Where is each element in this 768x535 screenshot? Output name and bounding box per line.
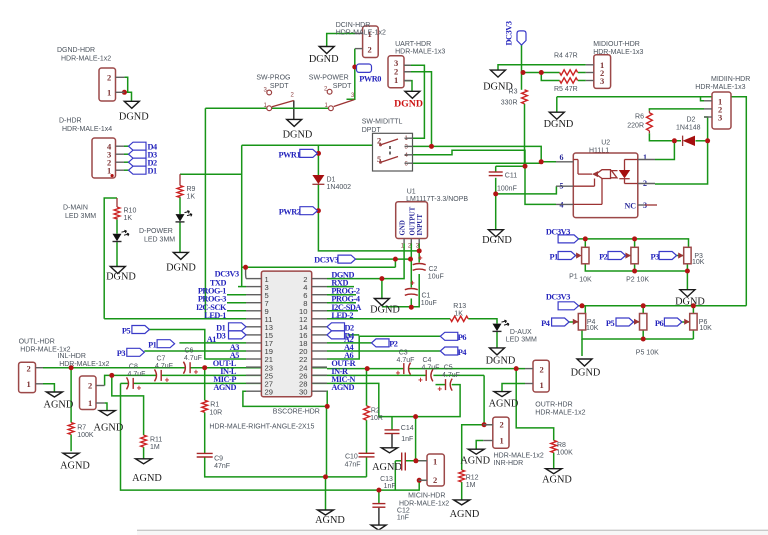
svg-text:+: + bbox=[410, 279, 415, 288]
svg-text:1N4148: 1N4148 bbox=[676, 125, 701, 132]
svg-text:P6: P6 bbox=[655, 319, 664, 328]
ground DGND right of OUTR bbox=[577, 359, 592, 366]
capacitor C13 1nF bbox=[401, 453, 403, 471]
svg-text:1K: 1K bbox=[124, 215, 133, 222]
net flags D1 D3 left bbox=[229, 323, 247, 331]
svg-text:AGND: AGND bbox=[44, 400, 74, 411]
capacitor C7 4.7uF bbox=[155, 369, 157, 381]
svg-text:47nF: 47nF bbox=[345, 462, 361, 469]
wire PROG-1 stub bbox=[227, 294, 246, 296]
ground AGND under R7 bbox=[63, 453, 79, 458]
wire PROG vertical x=205 down to LED-1 row bbox=[204, 108, 206, 319]
junction dots bbox=[122, 90, 127, 95]
ground DGND under D-MAIN bbox=[110, 267, 125, 274]
potentiometer P6 10K bbox=[690, 314, 697, 331]
svg-text:INL-HDR: INL-HDR bbox=[58, 353, 86, 360]
svg-text:HDR-MALE-1x3: HDR-MALE-1x3 bbox=[593, 49, 643, 56]
wire MICIN pin1 row bbox=[405, 460, 427, 462]
svg-text:HDR-MALE-1x2: HDR-MALE-1x2 bbox=[399, 501, 449, 508]
svg-text:DCIN-HDR: DCIN-HDR bbox=[336, 22, 371, 29]
svg-text:220R: 220R bbox=[627, 123, 644, 130]
svg-text:P4: P4 bbox=[541, 319, 550, 328]
svg-text:4.7uF: 4.7uF bbox=[128, 371, 146, 378]
wire R7 from OUT-L node bbox=[70, 368, 72, 423]
wire pot row2 bottom rail bbox=[582, 330, 693, 339]
led D-MAIN bbox=[113, 234, 122, 242]
svg-text:P1: P1 bbox=[148, 341, 157, 350]
svg-text:6: 6 bbox=[560, 153, 564, 162]
net flags D4 D3 D2 D1 bbox=[129, 142, 147, 150]
wire C14 stem bottom bbox=[391, 434, 393, 448]
potentiometer P3 10K bbox=[684, 247, 691, 263]
svg-text:1: 1 bbox=[107, 88, 111, 98]
connector INL-HDR bbox=[80, 376, 97, 410]
svg-text:HDR-MALE-RIGHT-ANGLE-2X15: HDR-MALE-RIGHT-ANGLE-2X15 bbox=[209, 424, 314, 431]
svg-text:2: 2 bbox=[27, 364, 31, 374]
svg-text:PWR0: PWR0 bbox=[359, 75, 381, 84]
svg-text:SW-MIDITTL: SW-MIDITTL bbox=[362, 119, 403, 126]
svg-text:1: 1 bbox=[433, 457, 437, 467]
wire INR-HDR pin1 to AGND bbox=[476, 441, 483, 450]
capacitor C5 4.7uF bbox=[445, 379, 447, 390]
wire RXD stub bbox=[327, 286, 354, 288]
ground DGND under C11 bbox=[488, 230, 503, 237]
capacitor C2 10uF bbox=[413, 264, 426, 265]
svg-text:HDR-MALE-1x3: HDR-MALE-1x3 bbox=[695, 84, 745, 91]
wire MIDIIN pin1 to rail bbox=[701, 97, 705, 101]
resistor R7 100K bbox=[68, 423, 74, 435]
wire IN-L node down to R11 bbox=[112, 375, 144, 435]
svg-text:AGND: AGND bbox=[331, 383, 354, 392]
svg-text:1: 1 bbox=[394, 75, 398, 85]
svg-text:DGND: DGND bbox=[106, 272, 136, 283]
svg-text:C2: C2 bbox=[429, 266, 438, 273]
ground DGND under DGND-HDR bbox=[124, 101, 139, 108]
svg-text:DGND: DGND bbox=[309, 54, 339, 65]
svg-text:R8: R8 bbox=[557, 442, 566, 449]
capacitor C12 1nF bbox=[372, 503, 385, 505]
svg-text:D-AUX: D-AUX bbox=[510, 329, 532, 336]
svg-text:1K: 1K bbox=[454, 311, 463, 318]
wire R7 to AGND bbox=[70, 435, 72, 452]
wire TXD stub bbox=[238, 286, 246, 288]
svg-text:10uF: 10uF bbox=[421, 300, 437, 307]
wire INR node to R12 bbox=[462, 425, 484, 470]
svg-text:100K: 100K bbox=[556, 450, 573, 457]
wire LED-2 row to R13 bbox=[327, 318, 450, 320]
wire R2 C10 vertical bbox=[366, 369, 368, 406]
ground AGND under INL pin1 bbox=[99, 411, 115, 416]
resistor R4 47R bbox=[560, 70, 578, 75]
wire OUT-L row bbox=[43, 367, 185, 369]
svg-text:MIDIOUT-HDR: MIDIOUT-HDR bbox=[593, 41, 640, 48]
svg-text:DC3V3: DC3V3 bbox=[314, 256, 338, 265]
svg-text:DC3V3: DC3V3 bbox=[546, 228, 570, 237]
svg-text:DGND: DGND bbox=[394, 99, 423, 110]
connector OUTR-HDR bbox=[533, 360, 549, 392]
wire R5 to MIDIOUT pin3 bbox=[578, 80, 586, 82]
svg-text:+: + bbox=[137, 383, 142, 392]
wire switch pin6 row bbox=[413, 162, 542, 164]
wire D-POWER LED to DGND bbox=[179, 223, 181, 253]
svg-text:D3: D3 bbox=[216, 332, 226, 341]
svg-text:DGND: DGND bbox=[370, 305, 400, 316]
svg-text:D4: D4 bbox=[345, 332, 355, 341]
potentiometer P1 10K bbox=[582, 247, 589, 263]
svg-text:D1: D1 bbox=[148, 167, 158, 176]
svg-text:DGND: DGND bbox=[166, 263, 196, 274]
wire R6 bottom to D2 anode bbox=[649, 133, 681, 141]
svg-text:AGND: AGND bbox=[372, 462, 402, 473]
svg-text:P2: P2 bbox=[599, 252, 608, 261]
connector MICIN-HDR bbox=[427, 454, 444, 486]
wire OUT-R node down to R8 bbox=[516, 369, 554, 441]
svg-text:AGND: AGND bbox=[60, 461, 90, 472]
svg-text:P1: P1 bbox=[569, 274, 578, 281]
svg-text:AGND: AGND bbox=[315, 515, 345, 526]
svg-text:1nF: 1nF bbox=[397, 515, 409, 522]
wire DCIN pin1 to DGND bbox=[327, 34, 355, 47]
svg-text:+: + bbox=[396, 369, 401, 378]
ground AGND wire A bbox=[318, 510, 334, 515]
svg-text:R11: R11 bbox=[150, 437, 162, 444]
ground DGND under D-AUX bbox=[490, 348, 505, 355]
svg-text:SPDT: SPDT bbox=[333, 83, 352, 90]
svg-text:1: 1 bbox=[27, 379, 31, 389]
svg-text:10K: 10K bbox=[579, 277, 592, 284]
capacitor C6 4.7uF bbox=[183, 362, 185, 374]
svg-text:AGND: AGND bbox=[213, 383, 236, 392]
svg-text:4: 4 bbox=[405, 153, 409, 159]
net flag P5 bbox=[132, 326, 150, 334]
svg-text:DGND: DGND bbox=[283, 130, 313, 141]
led D-AUX bbox=[493, 324, 502, 332]
wire IC AGND pins to AGND bbox=[243, 391, 327, 406]
svg-text:D-MAIN: D-MAIN bbox=[63, 205, 88, 212]
wire DGND-HDR pin2 jog bbox=[124, 77, 127, 92]
connector INR-HDR bbox=[493, 417, 509, 448]
svg-text:OUTL-HDR: OUTL-HDR bbox=[19, 339, 55, 346]
svg-text:DC3V3: DC3V3 bbox=[505, 21, 514, 45]
wire OUTL-HDR pin1 to AGND bbox=[43, 384, 54, 392]
svg-text:INR-HDR: INR-HDR bbox=[494, 460, 524, 467]
svg-text:P6: P6 bbox=[458, 333, 467, 342]
wire IC pin1 bent lead bbox=[245, 267, 247, 278]
potentiometer P5 10K bbox=[640, 314, 647, 331]
connector D-HDR bbox=[92, 138, 116, 178]
svg-text:2: 2 bbox=[500, 420, 504, 430]
wire I2C-SCK stub bbox=[227, 310, 246, 312]
svg-text:AGND: AGND bbox=[460, 456, 490, 467]
wire R10 branch to LED-1 net bbox=[104, 198, 117, 319]
wire U1 INPUT to C2 bbox=[418, 244, 420, 263]
svg-text:HDR-MALE-1x2: HDR-MALE-1x2 bbox=[535, 410, 585, 417]
svg-text:HDR-MALE-1x2: HDR-MALE-1x2 bbox=[61, 56, 111, 63]
svg-text:1nF: 1nF bbox=[384, 483, 396, 490]
wire UART pin3 to SW-MIDITTL pin1 bbox=[404, 65, 424, 138]
wire B AGND bus from MIC-P row bbox=[121, 383, 420, 490]
svg-text:D-POWER: D-POWER bbox=[139, 228, 173, 235]
connector MIDIIN-HDR bbox=[712, 92, 731, 129]
wire PROG-3 stub bbox=[227, 302, 246, 304]
net flag DC3V3 at U1 bbox=[338, 255, 356, 263]
wire D-MAIN LED to DGND bbox=[116, 242, 118, 266]
svg-text:AGND: AGND bbox=[132, 473, 162, 484]
svg-text:HDR-MALE-1x3: HDR-MALE-1x3 bbox=[395, 49, 445, 56]
wire R10 to D-MAIN LED bbox=[116, 220, 118, 234]
svg-text:D1: D1 bbox=[327, 177, 336, 184]
wire UART pin1 to DGND bbox=[404, 81, 412, 92]
svg-text:1nF: 1nF bbox=[401, 436, 413, 443]
svg-text:C9: C9 bbox=[214, 456, 223, 463]
resistor R5 47R bbox=[560, 78, 578, 83]
svg-text:R1: R1 bbox=[210, 402, 219, 409]
net flag P4 right bbox=[440, 347, 458, 355]
wire D2 cathode to MIDIIN pin3 bbox=[696, 140, 708, 142]
svg-text:2: 2 bbox=[88, 381, 92, 391]
resistor R10 bbox=[114, 207, 120, 219]
svg-text:1M: 1M bbox=[466, 482, 476, 489]
wire C11 top branch bbox=[496, 165, 525, 167]
svg-text:10R: 10R bbox=[370, 415, 383, 422]
svg-text:SW-POWER: SW-POWER bbox=[309, 75, 349, 82]
ground AGND under R8 bbox=[546, 469, 562, 474]
svg-text:P5 10K: P5 10K bbox=[636, 350, 659, 357]
connector DGND-HDR bbox=[99, 68, 116, 101]
wire PWR1 node to diode D1 bbox=[317, 145, 319, 175]
svg-text:10K: 10K bbox=[586, 325, 599, 332]
wire pot wiper stubs row1 bbox=[574, 255, 578, 257]
capacitor C11 100nF bbox=[489, 171, 503, 173]
svg-text:4.7uF: 4.7uF bbox=[184, 355, 202, 362]
svg-text:R7: R7 bbox=[77, 425, 86, 432]
svg-text:R9: R9 bbox=[187, 186, 196, 193]
wire C11 bottom to DGND and U2 pin5 bbox=[495, 178, 497, 194]
svg-text:UART-HDR: UART-HDR bbox=[395, 41, 431, 48]
net flag DC3V3 pot row1 bbox=[558, 235, 579, 243]
wire MIDIIN pin2 to R6 bbox=[649, 109, 704, 111]
svg-text:R4 47R: R4 47R bbox=[554, 53, 578, 60]
svg-text:AGND: AGND bbox=[489, 399, 519, 410]
svg-text:R6: R6 bbox=[635, 114, 644, 121]
svg-text:4.7uF: 4.7uF bbox=[442, 372, 460, 379]
wire C2 bottom to cap gnd row bbox=[382, 274, 419, 307]
wire R13 to D-AUX LED bbox=[468, 319, 497, 324]
svg-text:330R: 330R bbox=[501, 100, 518, 107]
wire D-AUX LED to DGND bbox=[496, 332, 498, 348]
ground AGND under INR pin1 bbox=[468, 449, 484, 454]
svg-text:C14: C14 bbox=[401, 425, 414, 432]
diode D1 1N4002 bbox=[312, 175, 324, 184]
svg-text:1: 1 bbox=[540, 380, 544, 390]
svg-text:4.7uF: 4.7uF bbox=[155, 363, 173, 370]
svg-text:C5: C5 bbox=[444, 365, 453, 372]
svg-text:C12: C12 bbox=[397, 508, 410, 515]
wire PWR1 horizontal to SW-MIDITTL pin2 bbox=[242, 144, 373, 146]
svg-text:10uF: 10uF bbox=[428, 274, 444, 281]
svg-text:47nF: 47nF bbox=[214, 463, 230, 470]
wire DCIN pin2 down to PWR0 node and SW-POWER common bbox=[347, 49, 355, 100]
svg-text:HDR-MALE-1x4: HDR-MALE-1x4 bbox=[62, 126, 112, 133]
wire MIDI R4/R5 feed bbox=[522, 72, 560, 74]
svg-text:4.7uF: 4.7uF bbox=[397, 357, 415, 364]
wire pot row1 bottom rail bbox=[585, 264, 688, 271]
capacitor C4 4.7uF bbox=[425, 370, 427, 381]
wire switch pin3 row to U2 area bbox=[413, 146, 557, 161]
ground AGND under R12 bbox=[454, 500, 470, 505]
svg-text:HDR-MALE-1x2: HDR-MALE-1x2 bbox=[336, 30, 386, 37]
svg-text:DGND: DGND bbox=[675, 297, 705, 308]
ground DGND under SW-PROG bbox=[287, 119, 302, 126]
wire DGND rail y=96.8 to MIDIIN and down to pot row2 bbox=[557, 97, 747, 306]
svg-text:OUTR-HDR: OUTR-HDR bbox=[535, 402, 572, 409]
led D-POWER bbox=[176, 214, 185, 222]
wire IN-R down to INR-HDR pin2 bbox=[484, 375, 493, 424]
svg-text:HDR-MALE-1x2: HDR-MALE-1x2 bbox=[494, 453, 544, 460]
resistor R3 330R bbox=[522, 90, 528, 104]
wire UART pin2 down to switch pin3 row bbox=[404, 72, 432, 147]
wire SW-PROG common to DGND bbox=[293, 101, 295, 120]
wire pot wiper stubs row2 bbox=[569, 321, 578, 323]
wire DGND stub to MIDIOUT pin1 row bbox=[498, 65, 586, 70]
wire PROG-4 stub bbox=[327, 302, 356, 304]
wire C12 stem bbox=[378, 490, 380, 504]
svg-text:AGND: AGND bbox=[94, 423, 124, 434]
connector MIDIOUT-HDR bbox=[594, 55, 611, 89]
diode D2 1N4148 bbox=[683, 136, 695, 146]
svg-text:DGND: DGND bbox=[486, 356, 516, 367]
svg-text:2: 2 bbox=[107, 73, 111, 83]
ground AGND under OUTL pin1 bbox=[46, 392, 62, 397]
wire A AGND drop bbox=[325, 477, 327, 510]
wire INL-HDR pin2 up to IN-L node bbox=[105, 375, 112, 385]
svg-text:AGND: AGND bbox=[450, 509, 480, 520]
ground AGND under C14 bbox=[382, 448, 398, 453]
ground DGND under U1 bbox=[374, 299, 389, 306]
svg-text:1: 1 bbox=[88, 398, 92, 408]
svg-text:PWR1: PWR1 bbox=[278, 150, 300, 159]
ground AGND under R11 bbox=[136, 459, 152, 464]
wire DC3V3 row to IC pin1 bbox=[242, 266, 396, 268]
wire SW-PROG/SW-POWER throw row bbox=[205, 107, 329, 109]
svg-text:C8: C8 bbox=[129, 364, 138, 371]
svg-text:2: 2 bbox=[291, 93, 295, 99]
wire LED-1 row pin11 bbox=[104, 318, 246, 320]
svg-text:P1: P1 bbox=[549, 252, 558, 261]
svg-text:1: 1 bbox=[405, 136, 409, 142]
ground AGND under OUTR pin1 bbox=[494, 392, 510, 397]
net flag P1 bbox=[157, 340, 175, 348]
resistor R2 10R bbox=[364, 406, 370, 420]
svg-text:R5 47R: R5 47R bbox=[554, 86, 578, 93]
svg-text:NC: NC bbox=[624, 202, 636, 211]
wire MIC-N row jog bbox=[327, 383, 460, 416]
svg-text:+: + bbox=[437, 385, 442, 394]
svg-text:R12: R12 bbox=[466, 475, 479, 482]
ground DGND mid rail bbox=[549, 112, 564, 119]
connector DCIN-HDR bbox=[363, 26, 379, 58]
wire PROG-2 stub bbox=[327, 294, 356, 296]
net flags D2 D4 right bbox=[327, 323, 345, 331]
svg-text:3: 3 bbox=[718, 113, 722, 123]
wire OUT-L node down through R1 bbox=[204, 368, 206, 401]
svg-text:+: + bbox=[194, 368, 199, 377]
wire C9 bottom to wire A bbox=[205, 457, 367, 477]
svg-text:DC3V3: DC3V3 bbox=[546, 293, 570, 302]
svg-text:1M: 1M bbox=[150, 444, 160, 451]
resistor R1 10R bbox=[202, 400, 208, 412]
ground DGND left of DC3V3 bbox=[491, 70, 506, 77]
wire C5 left stub bbox=[436, 384, 446, 386]
svg-text:10K: 10K bbox=[692, 259, 705, 266]
resistor R9 bbox=[177, 186, 183, 198]
wire DC3V3 top flag down to R3 bbox=[521, 45, 523, 90]
wire P4 to A4 row bbox=[327, 350, 440, 352]
wire D4 flag stub bbox=[348, 334, 360, 336]
wire P2 to A2 row bbox=[327, 342, 372, 344]
svg-text:C6: C6 bbox=[185, 348, 194, 355]
net flag P6 right bbox=[440, 332, 458, 340]
net flag P2 right bbox=[372, 339, 390, 347]
ground DGND pot row1 bbox=[680, 290, 695, 297]
svg-text:2: 2 bbox=[368, 45, 372, 55]
wire U1 GND net bbox=[327, 278, 382, 280]
capacitor C14 1nF bbox=[385, 429, 400, 431]
wire switch pin4 row to U2 C11 node bbox=[413, 150, 557, 204]
svg-text:U1: U1 bbox=[407, 189, 416, 196]
wire MIC-P row bbox=[121, 382, 129, 384]
capacitor C9 47nF bbox=[197, 452, 213, 454]
wire C14 stem top bbox=[391, 417, 393, 430]
svg-text:C11: C11 bbox=[505, 173, 517, 180]
wire U1 DC3V3 label row bbox=[356, 258, 411, 260]
wire OUTR-HDR pin1 to AGND bbox=[502, 384, 525, 392]
wire P5 to A5 row bbox=[149, 330, 246, 360]
svg-text:DC3V3: DC3V3 bbox=[215, 270, 239, 279]
wire IN-L row bbox=[112, 374, 156, 376]
svg-text:A1: A1 bbox=[207, 335, 217, 344]
svg-text:U2: U2 bbox=[601, 140, 610, 147]
connector OUTL-HDR bbox=[19, 362, 36, 392]
svg-text:LED 3MM: LED 3MM bbox=[144, 237, 175, 244]
wire D1 cathode down to PWR2 node and U1 INPUT row bbox=[318, 185, 419, 251]
svg-text:PWR2: PWR2 bbox=[279, 208, 301, 217]
svg-text:R2: R2 bbox=[371, 408, 380, 415]
svg-text:10K: 10K bbox=[699, 325, 712, 332]
wire OUT-R row bbox=[327, 368, 404, 370]
svg-text:100K: 100K bbox=[77, 432, 94, 439]
svg-text:SW-PROG: SW-PROG bbox=[256, 75, 290, 82]
svg-text:OUTPUT: OUTPUT bbox=[409, 206, 416, 235]
ground AGND under C12 bbox=[371, 525, 386, 530]
net flag PWR0 bbox=[357, 64, 372, 72]
svg-text:AGND: AGND bbox=[542, 475, 572, 486]
svg-text:P3: P3 bbox=[650, 252, 659, 261]
wire R12 to AGND bbox=[461, 482, 463, 500]
svg-text:1N4002: 1N4002 bbox=[327, 184, 352, 191]
net flag PWR1 bbox=[300, 149, 318, 157]
ground DGND under D-POWER bbox=[173, 252, 188, 259]
svg-text:6: 6 bbox=[405, 162, 409, 168]
wire pot row1 to DGND bbox=[686, 271, 688, 290]
wire I2C-SDA stub bbox=[327, 310, 358, 312]
net flag PWR2 bbox=[300, 207, 318, 215]
svg-text:P5: P5 bbox=[122, 326, 131, 335]
wire R11 to AGND bbox=[143, 447, 145, 459]
svg-text:SPDT: SPDT bbox=[270, 83, 289, 90]
wire DGND-HDR pin1 to DGND bbox=[124, 92, 131, 101]
svg-text:C10: C10 bbox=[345, 454, 358, 461]
